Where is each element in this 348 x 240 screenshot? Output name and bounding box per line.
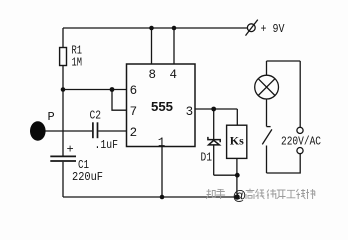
svg-text:C2: C2 — [90, 109, 102, 123]
svg-text:+: + — [67, 143, 74, 157]
node pin1 rail — [160, 195, 165, 200]
wire Ks bottom — [236, 158, 238, 194]
switch — [262, 127, 272, 173]
svg-text:1: 1 — [158, 136, 166, 150]
svg-text:2: 2 — [130, 126, 138, 140]
svg-text:220uF: 220uF — [72, 170, 103, 184]
watermark char zhi — [206, 189, 215, 199]
wire R1 top — [62, 28, 64, 48]
svg-text:Ks: Ks — [230, 133, 244, 147]
wire pin4 — [173, 28, 175, 64]
svg-text:P: P — [48, 110, 55, 124]
wire pin7 branch — [112, 90, 127, 111]
node dots — [61, 26, 240, 200]
capacitor C2 — [93, 122, 98, 138]
wire mic line — [45, 130, 92, 132]
node pin8 rail — [149, 26, 154, 31]
wire D1-Ks link — [214, 174, 238, 176]
svg-text:@: @ — [233, 188, 247, 203]
watermark char ji — [256, 189, 265, 199]
svg-text:D1: D1 — [201, 150, 213, 164]
node pin7 branch — [110, 87, 115, 92]
wire R1 bottom — [62, 66, 64, 90]
watermark char xie — [267, 189, 276, 199]
node pin3 — [211, 107, 216, 112]
wire bottom rail — [63, 196, 235, 198]
svg-text:1M: 1M — [72, 55, 83, 69]
terminal +9V — [246, 20, 258, 36]
diode D1 — [208, 137, 220, 145]
wire left vertical — [62, 90, 64, 157]
watermark char cheng — [296, 189, 305, 199]
svg-text:4: 4 — [169, 68, 177, 82]
wire D1 top — [213, 109, 215, 139]
terminal AC upper — [297, 127, 303, 133]
wire C1 bottom — [62, 162, 64, 197]
node pin4 rail — [172, 26, 177, 31]
wire pin1 — [161, 147, 163, 198]
capacitor C1 — [50, 156, 76, 161]
watermark char gao — [246, 189, 255, 199]
svg-text:555: 555 — [151, 99, 173, 114]
watermark char ding — [277, 190, 286, 199]
svg-text:8: 8 — [149, 68, 157, 82]
lamp — [255, 61, 279, 127]
node D1-Ks — [235, 173, 240, 178]
wire C2 to pin2 — [98, 130, 126, 132]
svg-text:3: 3 — [186, 105, 194, 119]
svg-text:220V/AC: 220V/AC — [281, 134, 321, 148]
terminal output — [234, 194, 239, 199]
wire D1 bottom — [213, 145, 215, 175]
wire pin3 — [195, 108, 237, 110]
watermark — [206, 189, 315, 199]
watermark char gong — [287, 190, 296, 198]
relay Ks box — [227, 125, 247, 158]
svg-text:+ 9V: + 9V — [261, 22, 286, 36]
watermark char shi — [306, 189, 315, 199]
wire pin6 line — [63, 89, 127, 91]
resistor R1 — [60, 48, 67, 66]
terminal AC lower — [297, 148, 303, 154]
microphone P — [30, 121, 46, 141]
wire top rail — [63, 27, 247, 29]
svg-text:7: 7 — [130, 105, 138, 119]
watermark char hu — [216, 189, 225, 199]
wire Ks top — [236, 109, 238, 125]
wire lamp loop — [267, 60, 301, 62]
wire pin8 — [151, 28, 153, 64]
svg-text:.1uF: .1uF — [95, 138, 119, 152]
op-amp U1 555 box — [127, 64, 196, 147]
node R1 pin6 — [61, 87, 66, 92]
svg-text:6: 6 — [130, 84, 138, 98]
